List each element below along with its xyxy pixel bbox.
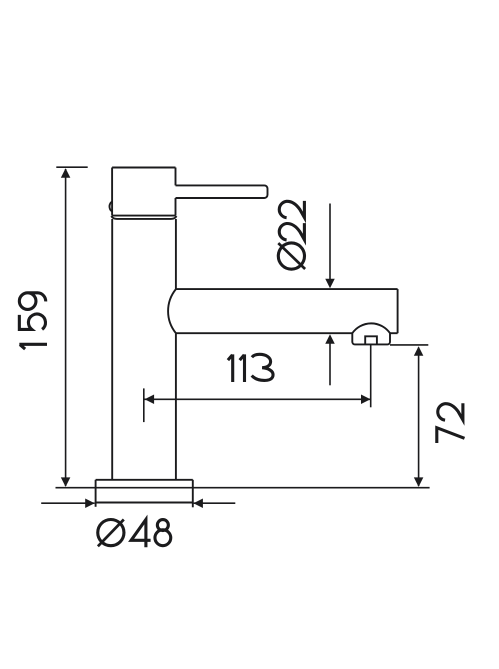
- handle block bottom edge: [112, 215, 175, 217]
- base flange top edge: [96, 479, 193, 481]
- dim 48 left line: [41, 502, 94, 504]
- body right edge lower segment: [175, 333, 177, 480]
- dim 22 upper arrow line: [329, 204, 331, 280]
- label diameter 22 (rotated): [278, 201, 305, 269]
- arrowhead 159 bottom: [61, 477, 71, 487]
- handle lever: [176, 185, 268, 198]
- handle block top edge: [112, 167, 175, 169]
- spout right edge: [397, 289, 399, 333]
- dim 72 line: [418, 348, 420, 487]
- aerator nozzle rectangle: [365, 336, 377, 344]
- arrowhead 72 bottom: [414, 477, 424, 487]
- spout left end cap arc: [168, 289, 176, 333]
- arrowhead 22 down: [325, 279, 335, 289]
- aerator dome: [352, 323, 390, 344]
- body left edge: [111, 219, 113, 480]
- arrowhead 159 top: [61, 168, 71, 178]
- dim 113 line: [144, 398, 370, 400]
- spout bottom edge right segment: [390, 332, 398, 334]
- arrowhead 72 top: [414, 346, 424, 356]
- dim 159 line: [65, 169, 67, 486]
- dim 113 right extension line: [370, 345, 372, 408]
- handle block left edge: [111, 168, 113, 216]
- body right edge upper segment: [175, 219, 177, 289]
- arrowhead 113 left: [145, 395, 155, 405]
- base flange left edge: [95, 480, 97, 507]
- joint ring under handle: [111, 216, 176, 219]
- arrowhead 48 left: [85, 498, 95, 508]
- dim 113 left extension line: [143, 388, 145, 422]
- spout top edge: [176, 288, 398, 290]
- base flange bottom edge: [96, 502, 193, 504]
- base flange right edge: [192, 480, 194, 508]
- dim 48 right line: [194, 502, 236, 504]
- handle block right edge lower segment: [175, 198, 177, 216]
- handle side button bump: [109, 202, 112, 212]
- dim 22 lower arrow line: [329, 343, 331, 385]
- mounting surface line: [56, 487, 430, 489]
- label 113: [228, 354, 273, 382]
- arrowhead 113 right: [361, 395, 371, 405]
- label diameter 48: [98, 520, 171, 548]
- spout bottom edge left segment: [176, 332, 352, 334]
- label 159 (rotated): [19, 293, 47, 349]
- dim 72 top extension line: [390, 344, 428, 346]
- handle block right edge upper segment: [175, 168, 177, 186]
- arrowhead 22 up: [325, 334, 335, 344]
- dim 159 top extension line: [56, 166, 87, 168]
- arrowhead 48 right: [193, 498, 203, 508]
- label 72 (rotated): [437, 403, 465, 443]
